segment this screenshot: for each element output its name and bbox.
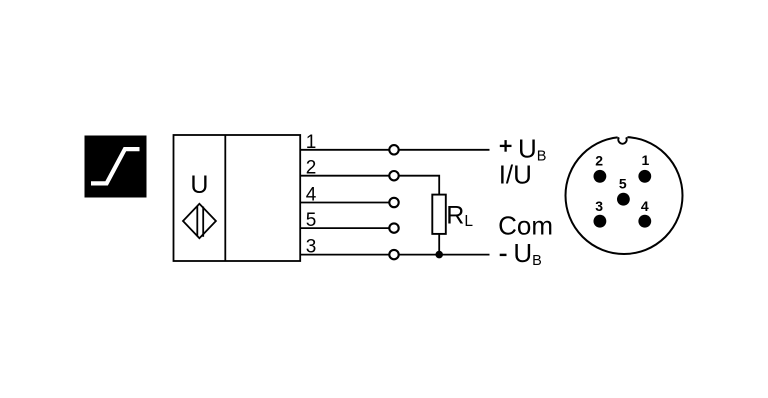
junction dot on wire 3 [435,251,443,259]
terminal circle 3 [389,250,398,259]
wire 2 (I/U) [300,176,439,195]
svg-text:2: 2 [306,158,317,179]
wire resistor bottom to wire 3 [438,234,440,255]
wire 5 [300,227,394,229]
connector pin 3 dot [594,215,607,228]
connector pin 1 dot [638,170,651,183]
svg-text:3: 3 [595,198,603,214]
wire 3 (-UB) [300,254,490,256]
connector pin 5 dot [617,193,630,206]
svg-text:1: 1 [642,152,650,168]
resistor RL body [432,195,446,234]
label -UB minus sign [500,254,507,256]
svg-text:5: 5 [306,210,317,231]
connector outline circle [566,131,683,254]
svg-text:3: 3 [306,237,317,258]
svg-text:U: U [190,171,208,199]
wire 4 [300,202,394,204]
svg-text:4: 4 [641,198,649,214]
svg-text:I/U: I/U [499,160,532,190]
sensor box U1 [174,135,301,261]
terminal circle 4 [389,198,398,207]
label +UB plus sign [500,140,512,152]
terminal circle 1 [389,145,398,154]
svg-text:4: 4 [306,185,317,206]
voltage-output diamond symbol [183,204,216,238]
connector pin 4 dot [638,215,651,228]
svg-text:1: 1 [306,132,317,153]
analog output icon (black square with ramp) [85,136,147,198]
svg-text:2: 2 [595,152,603,168]
terminal circle 2 [389,171,398,180]
svg-text:Com: Com [498,211,553,241]
wire 1 (+UB) [300,149,490,151]
terminal circle 5 [389,223,398,232]
svg-text:5: 5 [619,176,627,192]
connector pin 2 dot [594,170,607,183]
